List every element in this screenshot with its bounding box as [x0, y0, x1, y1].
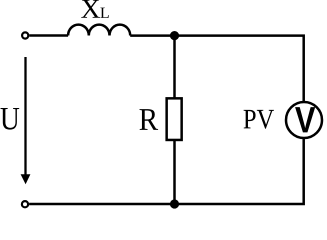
label XL — [81, 0, 100, 18]
voltage arrow U (shaft) — [24, 57, 26, 177]
wire node A down to resistor — [173, 36, 176, 99]
wire resistor to node B — [173, 140, 176, 204]
terminal T2 (bottom-left) — [22, 201, 28, 207]
label U — [1, 108, 20, 130]
label XL subscript L — [100, 8, 108, 18]
terminal T1 (top-left input) — [22, 32, 28, 38]
wire node A to top-right corner and down to voltmeter — [175, 36, 304, 102]
label R — [140, 109, 159, 130]
voltmeter V marking — [295, 107, 315, 132]
wire node B to terminal T2 — [29, 203, 174, 206]
voltage arrow U (head) — [21, 174, 31, 184]
voltmeter PV — [286, 102, 322, 138]
wire inductor to node A — [130, 34, 174, 37]
node A (top junction) — [170, 31, 179, 40]
wire terminal T1 to inductor — [29, 34, 68, 37]
label PV — [244, 110, 274, 129]
node B (bottom junction) — [170, 199, 179, 208]
wire voltmeter to bottom-right corner to node B — [175, 139, 304, 205]
inductor XL — [68, 25, 130, 36]
resistor R — [167, 98, 182, 140]
